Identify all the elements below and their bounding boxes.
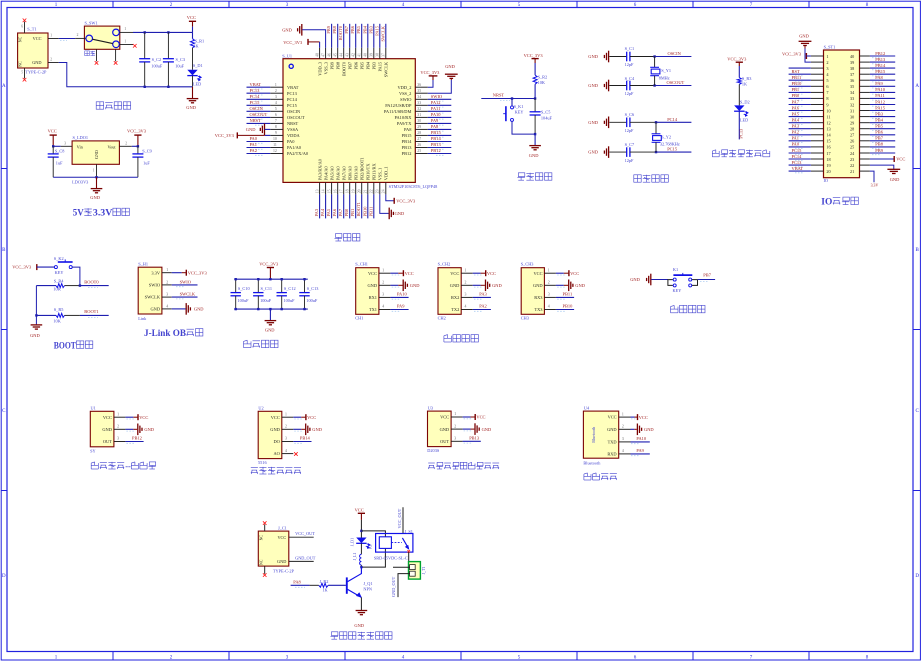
- wire OSCOUT net: [655, 80, 692, 86]
- svg-text:VDDA: VDDA: [287, 133, 301, 138]
- svg-text:PB9: PB9: [329, 61, 334, 69]
- svg-text:S_C5: S_C5: [541, 109, 551, 114]
- svg-text:OSCOUT: OSCOUT: [287, 115, 305, 120]
- svg-text:GND_OUT: GND_OUT: [391, 576, 396, 597]
- svg-text:16: 16: [334, 189, 338, 193]
- svg-text:J_R2: J_R2: [320, 579, 329, 584]
- ground: [529, 134, 541, 158]
- svg-text:PB5: PB5: [359, 61, 364, 69]
- svg-text:1: 1: [117, 412, 119, 416]
- connector S_CH2 serial port: [438, 262, 473, 321]
- svg-text:PA8: PA8: [875, 75, 883, 80]
- junction: [303, 308, 305, 310]
- svg-text:PA10: PA10: [875, 87, 885, 92]
- ground at crystal cap S_C7: [588, 146, 608, 158]
- svg-text:PB11: PB11: [792, 75, 802, 80]
- junction: [257, 308, 259, 310]
- svg-text:RX2: RX2: [451, 295, 459, 300]
- svg-text:PB12: PB12: [875, 51, 885, 56]
- svg-text:12: 12: [273, 149, 277, 153]
- terminal block J_T1: [409, 562, 426, 580]
- wire PC13 net: [739, 111, 744, 139]
- svg-text:3: 3: [454, 437, 456, 441]
- svg-text:VCC_3V3: VCC_3V3: [188, 270, 208, 275]
- svg-text:21: 21: [850, 169, 854, 174]
- svg-text:J_T1: J_T1: [422, 567, 426, 575]
- svg-text:GND: GND: [354, 623, 364, 628]
- power VCC at IO pin 23: [870, 156, 905, 162]
- svg-text:Link: Link: [138, 316, 147, 321]
- svg-text:PB0/A0: PB0/A0: [347, 165, 352, 180]
- svg-text:GND: GND: [277, 559, 286, 564]
- svg-text:12pF: 12pF: [625, 62, 634, 67]
- capacitor S_C5 104uF: [530, 99, 553, 135]
- svg-text:OSCOUT: OSCOUT: [250, 112, 268, 117]
- wire terminal bottom pad to GND_OUT: [391, 574, 410, 598]
- caption 复位电路: [517, 173, 525, 180]
- wire PB12 net: [125, 436, 143, 444]
- svg-text:GND: GND: [644, 427, 654, 432]
- svg-text:21: 21: [364, 189, 368, 193]
- svg-text:1uF: 1uF: [143, 160, 150, 165]
- svg-text:2: 2: [285, 425, 287, 429]
- svg-text:PA6: PA6: [792, 105, 800, 110]
- svg-text:VCC_3V3: VCC_3V3: [396, 199, 416, 204]
- svg-text:104uF: 104uF: [541, 115, 553, 120]
- svg-text:RX1: RX1: [369, 295, 377, 300]
- svg-text:J_L1: J_L1: [353, 553, 357, 561]
- svg-text:PA0: PA0: [287, 139, 295, 144]
- wire resistor to LED: [738, 84, 740, 105]
- IO port left net wires and labels: [789, 68, 811, 173]
- svg-text:15: 15: [826, 139, 830, 144]
- svg-text:SWIO: SWIO: [149, 283, 160, 288]
- LED J_D1: [351, 538, 371, 549]
- svg-text:1K: 1K: [742, 81, 748, 86]
- svg-text:PA2/TX/A0: PA2/TX/A0: [287, 151, 309, 156]
- svg-text:NRST: NRST: [250, 118, 262, 123]
- svg-text:PC15: PC15: [667, 147, 678, 152]
- svg-text:U1: U1: [91, 406, 96, 411]
- svg-text:PB3: PB3: [372, 61, 377, 69]
- svg-text:PB14: PB14: [300, 436, 311, 441]
- svg-text:RXD: RXD: [607, 452, 616, 457]
- push-button K1 KEY 4-pin: [668, 267, 698, 293]
- svg-text:J_D1: J_D1: [351, 538, 355, 546]
- power VCC_3V3 at MCU VDD_1 pin 24: [386, 194, 416, 203]
- svg-text:PA0: PA0: [792, 142, 800, 147]
- svg-text:12pF: 12pF: [625, 128, 634, 133]
- IO port right net wires and labels: [870, 51, 895, 155]
- ground at MCU VSS_2 pin 35: [428, 64, 458, 93]
- capacitor S_C1 12pF: [609, 46, 654, 67]
- svg-text:2: 2: [125, 141, 127, 145]
- junction: [655, 121, 657, 123]
- caption 继电器控制电路: [331, 632, 339, 639]
- wire relay coil bottom to collector node: [361, 548, 385, 567]
- svg-text:PA5: PA5: [792, 111, 800, 116]
- svg-text:PA2: PA2: [479, 304, 486, 309]
- junction: [137, 145, 139, 147]
- svg-text:S_D2: S_D2: [740, 99, 750, 104]
- wire left vertical to ground: [35, 286, 37, 325]
- junction: [360, 530, 362, 532]
- power VCC_3V3 at BOOT circuit: [12, 264, 37, 270]
- svg-text:PB4: PB4: [362, 25, 367, 33]
- svg-text:PA10/RX: PA10/RX: [394, 115, 412, 120]
- svg-text:100uF: 100uF: [260, 298, 272, 303]
- regulator S_LDO1 LDO3V3: [61, 135, 132, 185]
- module U3 body: [427, 405, 462, 453]
- svg-text:S_T1: S_T1: [27, 27, 36, 32]
- svg-text:VCC: VCC: [307, 415, 316, 420]
- svg-text:32.768KHz: 32.768KHz: [660, 142, 680, 147]
- power VCC at U2 pin 1: [293, 414, 316, 420]
- svg-text:J_C1: J_C1: [278, 525, 287, 530]
- svg-text:VCC: VCC: [139, 415, 148, 420]
- connector J_C1 TYPE-C-2P: [258, 524, 313, 574]
- connector S_CH3 serial port: [521, 262, 556, 321]
- power VCC at CH2 pin 1: [473, 270, 496, 276]
- svg-text:S_CH3: S_CH3: [521, 262, 534, 267]
- power VCC_3V3 at indicator: [736, 61, 743, 63]
- svg-text:VDD_1: VDD_1: [384, 166, 389, 180]
- power VCC_3V3 to MCU VDDA pin 9: [215, 132, 270, 138]
- svg-text:29: 29: [850, 121, 854, 126]
- MCU top net wires and labels: [326, 24, 386, 48]
- svg-text:PA2: PA2: [250, 148, 257, 153]
- svg-text:26: 26: [417, 143, 421, 147]
- svg-text:PB9: PB9: [875, 148, 883, 153]
- junction: [144, 31, 146, 33]
- svg-text:2: 2: [77, 33, 79, 37]
- svg-text:11: 11: [273, 143, 277, 147]
- crystal S_Y1 8MHz: [650, 57, 671, 86]
- svg-text:VCC: VCC: [476, 415, 485, 420]
- svg-text:S_C3: S_C3: [176, 57, 186, 62]
- svg-text:TYPE-C-2P: TYPE-C-2P: [25, 69, 47, 74]
- svg-text:PA15: PA15: [875, 105, 885, 110]
- no-connect X on S_T1 pin 5: [23, 78, 27, 82]
- ground at U2 pin 2: [293, 424, 322, 436]
- svg-text:S_LDO1: S_LDO1: [73, 135, 89, 140]
- svg-text:D203S: D203S: [427, 448, 440, 453]
- svg-text:46: 46: [328, 53, 332, 57]
- svg-text:PA9/TX: PA9/TX: [397, 121, 412, 126]
- svg-text:S_ST1: S_ST1: [824, 45, 836, 50]
- svg-text:S_C12: S_C12: [284, 286, 296, 291]
- svg-text:PA7: PA7: [338, 208, 343, 216]
- svg-text:2: 2: [826, 60, 828, 65]
- svg-text:18: 18: [346, 189, 350, 193]
- svg-text:S_C11: S_C11: [261, 286, 273, 291]
- svg-text:S_C9: S_C9: [142, 149, 152, 154]
- junction: [235, 278, 237, 280]
- svg-text:3: 3: [826, 66, 828, 71]
- svg-text:S_R2: S_R2: [538, 74, 548, 79]
- svg-text:VSS_2: VSS_2: [399, 91, 411, 96]
- svg-text:NC: NC: [260, 559, 264, 565]
- junction: [655, 151, 657, 153]
- svg-text:36: 36: [417, 83, 421, 87]
- svg-text:KEY: KEY: [515, 110, 524, 115]
- svg-text:PB15: PB15: [431, 130, 442, 135]
- svg-text:PB7: PB7: [344, 25, 349, 33]
- svg-text:2: 2: [117, 425, 119, 429]
- capacitor S_C7 12pF: [609, 142, 656, 163]
- svg-text:S_U1: S_U1: [282, 53, 292, 58]
- svg-text:3: 3: [275, 95, 277, 99]
- switch caption 开关: [85, 51, 90, 56]
- svg-text:PA1: PA1: [792, 136, 799, 141]
- caption 电源电路: [96, 102, 104, 109]
- svg-text:PC15: PC15: [792, 148, 803, 153]
- svg-text:--: --: [125, 461, 131, 471]
- svg-text:43: 43: [346, 53, 350, 57]
- ground at crystal cap S_C1: [588, 51, 608, 63]
- svg-text:36: 36: [850, 78, 854, 83]
- svg-text:S_C4: S_C4: [625, 76, 635, 81]
- wire SWCLK net: [172, 292, 198, 299]
- svg-text:S_C2: S_C2: [152, 57, 162, 62]
- wire 3.3V net at IO pin 21: [870, 171, 879, 187]
- svg-text:41: 41: [358, 53, 362, 57]
- wire PA10 net at U4 TXD: [631, 436, 650, 444]
- svg-text:PA9: PA9: [431, 118, 439, 123]
- no-connect X at U2 pin 4: [294, 452, 298, 456]
- wire PA9 net: [390, 304, 408, 312]
- svg-text:5V: 5V: [73, 208, 84, 218]
- IO port left pins: [811, 56, 824, 171]
- wire filter top rail: [234, 278, 308, 280]
- svg-text:GND: GND: [440, 427, 450, 432]
- svg-text:PA5/A0: PA5/A0: [329, 166, 334, 181]
- svg-text:PA3/RX/A0: PA3/RX/A0: [317, 158, 322, 180]
- svg-text:8: 8: [275, 125, 277, 129]
- capacitor S_C2 100uF: [139, 32, 163, 86]
- ground at MCU VSS_3 pin 47: [282, 24, 325, 48]
- svg-text:PA8: PA8: [431, 124, 439, 129]
- svg-text:PB14: PB14: [875, 63, 886, 68]
- wire terminal top pad stub: [393, 566, 410, 568]
- svg-text:PB9: PB9: [326, 25, 331, 33]
- ground at MCU VSSA pin 8: [246, 124, 270, 136]
- svg-text:22: 22: [850, 163, 854, 168]
- svg-text:100uF: 100uF: [284, 298, 296, 303]
- wire LDO gnd stem: [96, 175, 98, 178]
- svg-text:PA9: PA9: [397, 304, 405, 309]
- svg-text:PB13: PB13: [402, 145, 413, 150]
- svg-text:100uF: 100uF: [306, 298, 318, 303]
- junction: [95, 176, 97, 178]
- svg-text:PA3: PA3: [792, 124, 800, 129]
- svg-text:31: 31: [850, 108, 854, 113]
- wire VCC rail top: [133, 27, 193, 33]
- svg-text:19: 19: [826, 163, 830, 168]
- svg-text:Bluetooth: Bluetooth: [583, 461, 601, 466]
- ground at crystal cap S_C4: [588, 80, 608, 92]
- svg-text:STM32F103C8T6_LQFP48: STM32F103C8T6_LQFP48: [389, 184, 438, 189]
- MCU right pins 36-25 with names and numbers: [384, 83, 428, 156]
- svg-text:23: 23: [850, 157, 854, 162]
- svg-text:OSCOUT: OSCOUT: [667, 80, 685, 85]
- svg-text:S_C8: S_C8: [55, 149, 65, 154]
- ground: [356, 611, 368, 615]
- svg-text:GND: GND: [144, 427, 154, 432]
- wire PA2 net: [473, 304, 491, 312]
- MCU bottom net wires and labels: [314, 194, 374, 218]
- svg-text:1: 1: [465, 268, 467, 272]
- svg-text:DO: DO: [273, 439, 279, 444]
- wire to resistor: [738, 66, 740, 78]
- push-button S_K1 KEY: [503, 99, 535, 135]
- svg-text:VCC: VCC: [533, 271, 542, 276]
- svg-text:PA7/A0: PA7/A0: [341, 166, 346, 181]
- svg-text:15: 15: [328, 189, 332, 193]
- wire PB10 net: [556, 304, 574, 312]
- svg-text:1K: 1K: [193, 44, 199, 49]
- no-connect X on S_SW1 bottom pin 2: [114, 61, 118, 65]
- svg-text:VCC: VCC: [187, 15, 196, 20]
- svg-text:U2: U2: [258, 406, 263, 411]
- svg-text:D: D: [2, 574, 6, 579]
- svg-text:A: A: [915, 84, 919, 89]
- svg-text:29: 29: [417, 125, 421, 129]
- svg-text:9: 9: [826, 102, 828, 107]
- svg-text:GND_OUT: GND_OUT: [295, 555, 316, 560]
- svg-text:2: 2: [454, 424, 456, 428]
- svg-text:PB12: PB12: [431, 148, 441, 153]
- resistor S_R4 10K: [36, 279, 80, 292]
- capacitor S_C6 12pF: [609, 112, 656, 133]
- push-button S_K2 KEY: [54, 256, 73, 275]
- junction: [281, 278, 283, 280]
- junction: [257, 278, 259, 280]
- svg-text:PA4/A0: PA4/A0: [323, 166, 328, 181]
- svg-text:9: 9: [275, 131, 277, 135]
- power VCC_3V3 at LDO output: [134, 134, 141, 136]
- wire SWIO net: [172, 279, 198, 286]
- svg-text:PC14: PC14: [287, 97, 298, 102]
- svg-text:PB13: PB13: [875, 57, 886, 62]
- svg-text:VCC_3V3: VCC_3V3: [524, 53, 544, 58]
- wire PB14 net: [293, 436, 311, 444]
- svg-text:4: 4: [275, 101, 277, 105]
- svg-text:VCC: VCC: [896, 157, 905, 162]
- svg-text:PA8: PA8: [404, 127, 412, 132]
- svg-text:1: 1: [93, 169, 95, 173]
- svg-text:GND: GND: [32, 60, 41, 65]
- svg-text:3.3V: 3.3V: [871, 183, 879, 187]
- svg-text:4: 4: [285, 449, 287, 453]
- svg-text:100uF: 100uF: [151, 64, 163, 69]
- svg-text:8MHz: 8MHz: [659, 76, 670, 81]
- svg-text:LDO3V3: LDO3V3: [72, 180, 88, 185]
- svg-text:14: 14: [322, 189, 326, 193]
- ground at MCU VSS_1 pin 23: [380, 194, 405, 219]
- transistor J_Q1 NPN: [346, 567, 373, 598]
- svg-text:U3: U3: [428, 405, 433, 410]
- IO port right pins: [860, 56, 870, 171]
- svg-text:PA10: PA10: [431, 112, 441, 117]
- resistor J_R2 1K: [310, 579, 346, 593]
- svg-text:GND: GND: [799, 33, 809, 38]
- svg-text:NC: NC: [19, 36, 23, 42]
- caption 人体热释电感应模块: [428, 463, 435, 469]
- wire ground to key: [651, 279, 668, 281]
- svg-text:GND: GND: [395, 211, 405, 216]
- svg-text:PC14: PC14: [667, 117, 678, 122]
- ground at CH2 pin 2: [473, 280, 503, 292]
- power VCC at CH1 pin 1: [390, 270, 413, 276]
- svg-text:PC15: PC15: [250, 100, 261, 105]
- junction: [167, 86, 169, 88]
- svg-text:PB2/BOOT1: PB2/BOOT1: [359, 157, 364, 180]
- switch S_SW1: [75, 20, 133, 61]
- svg-text:34: 34: [417, 95, 421, 99]
- svg-text:PB15: PB15: [402, 133, 413, 138]
- svg-text:SWCLK: SWCLK: [384, 61, 389, 77]
- svg-text:KEY: KEY: [673, 288, 682, 293]
- svg-text:2: 2: [382, 281, 384, 285]
- wire BOOT0 net: [80, 279, 109, 287]
- caption 声音检测--数字量: [91, 462, 98, 469]
- svg-text:PA11: PA11: [875, 93, 885, 98]
- svg-text:3: 3: [117, 437, 119, 441]
- svg-text:OSCIN: OSCIN: [668, 51, 682, 56]
- svg-text:38: 38: [850, 66, 854, 71]
- wire PA10 net: [390, 292, 408, 300]
- junction: [534, 97, 536, 99]
- wire VCC_OUT vertical to relay: [397, 507, 403, 533]
- svg-text:27: 27: [850, 133, 854, 138]
- svg-text:TXD: TXD: [608, 440, 617, 445]
- MCU left pins 1-12 with names and numbers: [270, 83, 309, 156]
- module U2 body: [258, 406, 293, 466]
- svg-text:S_C13: S_C13: [307, 286, 319, 291]
- svg-text:VCC_3V3: VCC_3V3: [420, 70, 440, 75]
- svg-text:6: 6: [21, 24, 23, 28]
- svg-text:S_CH2: S_CH2: [438, 262, 451, 267]
- power VCC_3V3 at IO pin 1: [782, 52, 811, 59]
- svg-text:GND: GND: [588, 150, 598, 155]
- svg-text:Bluetooth: Bluetooth: [591, 427, 596, 443]
- svg-text:PB10: PB10: [563, 304, 574, 309]
- wire PA9 net at U4 RXD: [631, 448, 650, 456]
- wire emitter to ground: [360, 597, 362, 610]
- svg-text:VCC: VCC: [440, 415, 449, 420]
- svg-text:PB4: PB4: [366, 61, 371, 69]
- power VCC_3V3 at MCU VDD_2 pin 36: [420, 70, 440, 87]
- svg-text:VBAT: VBAT: [287, 85, 299, 90]
- svg-text:VCC_3V3: VCC_3V3: [782, 52, 802, 57]
- svg-text:OSCIN: OSCIN: [287, 109, 301, 114]
- svg-text:3: 3: [166, 293, 168, 297]
- svg-text:S_H1: S_H1: [138, 261, 148, 266]
- svg-text:4: 4: [548, 305, 550, 309]
- svg-text:VCC_3V3: VCC_3V3: [127, 129, 147, 134]
- svg-text:PB6: PB6: [353, 61, 358, 69]
- junction: [653, 55, 655, 57]
- ground: [96, 177, 98, 188]
- svg-text:PB13: PB13: [431, 142, 442, 147]
- svg-text:VCC_3V3: VCC_3V3: [727, 57, 747, 62]
- wire PC14 net: [656, 117, 691, 123]
- caption 光照检测模块: [251, 468, 258, 475]
- capacitor S_C4 12pF: [609, 76, 654, 96]
- svg-text:40: 40: [850, 54, 854, 59]
- svg-text:GND: GND: [529, 153, 539, 158]
